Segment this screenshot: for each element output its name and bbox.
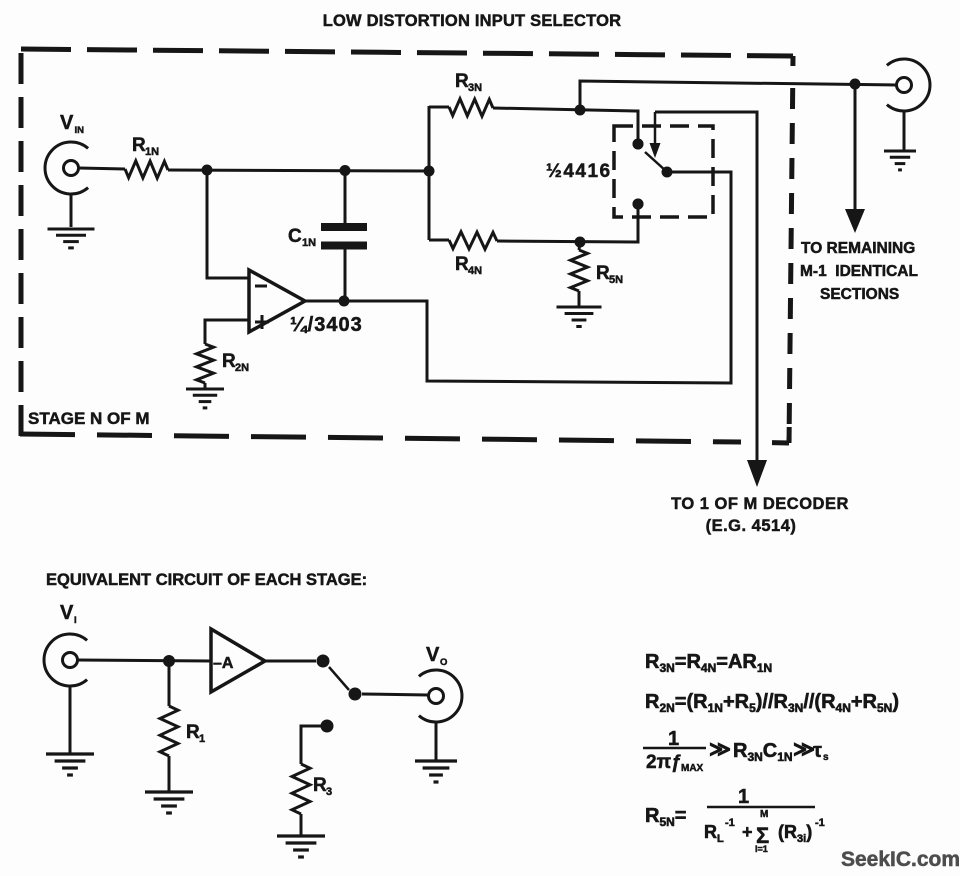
svg-text:TO REMAINING: TO REMAINING xyxy=(801,240,915,257)
svg-text:R: R xyxy=(313,775,327,796)
svg-text:1: 1 xyxy=(199,733,205,745)
svg-text:≫: ≫ xyxy=(793,738,815,761)
svg-text:IN: IN xyxy=(75,125,85,136)
svg-text:1N: 1N xyxy=(145,146,159,158)
svg-text:SECTIONS: SECTIONS xyxy=(820,286,899,303)
svg-text:5N: 5N xyxy=(609,274,623,286)
svg-text:+: + xyxy=(742,822,753,842)
svg-text:≫: ≫ xyxy=(709,738,731,761)
svg-text:2N: 2N xyxy=(235,362,249,374)
svg-text:τ: τ xyxy=(813,740,822,762)
svg-text:R: R xyxy=(596,263,610,284)
svg-text:STAGE N OF M: STAGE N OF M xyxy=(28,409,150,428)
svg-text:3N: 3N xyxy=(468,82,482,94)
svg-text:¼/3403: ¼/3403 xyxy=(290,314,363,336)
svg-text:I: I xyxy=(74,615,77,626)
svg-text:V: V xyxy=(426,644,440,666)
svg-text:MAX: MAX xyxy=(681,763,704,774)
svg-text:R: R xyxy=(455,254,469,275)
svg-text:V: V xyxy=(60,602,74,624)
svg-text:O: O xyxy=(440,657,447,668)
svg-text:C: C xyxy=(288,226,302,247)
svg-text:R: R xyxy=(132,135,146,156)
svg-text:1: 1 xyxy=(668,728,679,750)
svg-text:R: R xyxy=(186,722,200,743)
svg-text:1N: 1N xyxy=(302,237,316,249)
svg-text:(E.G. 4514): (E.G. 4514) xyxy=(706,517,797,535)
svg-text:R: R xyxy=(455,71,469,92)
svg-text:LOW DISTORTION INPUT SELECTOR: LOW DISTORTION INPUT SELECTOR xyxy=(323,12,622,30)
svg-text:V: V xyxy=(60,112,74,134)
svg-text:4N: 4N xyxy=(468,265,482,277)
svg-text:R2N=(R1N+R5)//R3N//(R4N+R5N): R2N=(R1N+R5)//R3N//(R4N+R5N) xyxy=(645,691,899,715)
svg-text:M: M xyxy=(760,809,768,820)
svg-text:½4416: ½4416 xyxy=(546,161,612,182)
svg-text:EQUIVALENT CIRCUIT OF EACH STA: EQUIVALENT CIRCUIT OF EACH STAGE: xyxy=(46,571,367,589)
svg-text:i=1: i=1 xyxy=(755,844,768,854)
svg-text:–A: –A xyxy=(213,655,234,672)
svg-text:M-1 IDENTICAL: M-1 IDENTICAL xyxy=(800,263,918,280)
svg-text:TO 1 OF M DECODER: TO 1 OF M DECODER xyxy=(671,495,849,513)
svg-text:2πƒ: 2πƒ xyxy=(646,752,682,773)
svg-text:-1: -1 xyxy=(815,817,825,829)
svg-text:1: 1 xyxy=(738,786,749,808)
svg-text:R: R xyxy=(222,351,236,372)
svg-text:3: 3 xyxy=(326,786,332,798)
svg-text:s: s xyxy=(823,752,829,763)
svg-text:SeekIC.com: SeekIC.com xyxy=(841,848,960,871)
svg-text:-1: -1 xyxy=(725,817,735,829)
svg-text:(R3i): (R3i) xyxy=(778,822,812,845)
